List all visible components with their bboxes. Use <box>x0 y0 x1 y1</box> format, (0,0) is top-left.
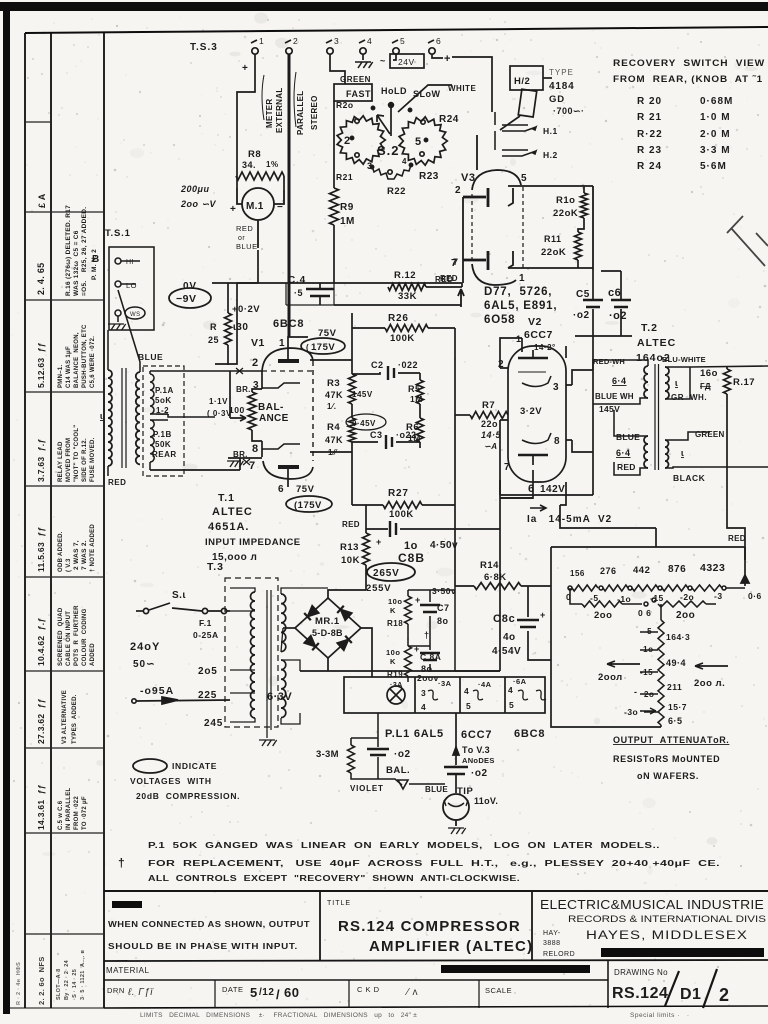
svg-text:( V.3: ( V.3 <box>66 558 72 572</box>
svg-text:0·6: 0·6 <box>748 591 762 601</box>
svg-text:2о: 2о <box>644 690 654 699</box>
svg-text:5-D-8B: 5-D-8B <box>312 628 343 638</box>
svg-text:1⁄⁄: 1⁄⁄ <box>328 448 338 457</box>
svg-text:D77, 5726,: D77, 5726, <box>484 286 552 298</box>
svg-text:PARALLEL: PARALLEL <box>296 91 305 135</box>
svg-text:R: R <box>210 322 217 332</box>
svg-text:R7: R7 <box>482 400 495 411</box>
wires V2 <box>455 283 593 505</box>
svg-text:"NOT" TO "COOL": "NOT" TO "COOL" <box>74 425 80 482</box>
svg-text:1-2: 1-2 <box>156 406 169 415</box>
svg-text:5: 5 <box>400 36 405 46</box>
capacitor C3 <box>352 441 420 443</box>
svg-text:3: 3 <box>367 161 373 171</box>
svg-text:−9V: −9V <box>176 293 196 305</box>
svg-text:442: 442 <box>633 565 650 576</box>
svg-text:4323: 4323 <box>700 562 725 574</box>
svg-text:100K: 100K <box>390 333 415 344</box>
svg-text:276: 276 <box>600 566 617 576</box>
svg-text:8о: 8о <box>437 616 449 626</box>
svg-text:P.1 5OK GANGED WAS LINEAR: P.1 5OK GANGED WAS LINEAR ON EARLY MODEL… <box>148 840 660 850</box>
svg-text:0-25A: 0-25A <box>193 630 219 640</box>
svg-text:TYPE: TYPE <box>549 68 574 77</box>
svg-text:R18: R18 <box>387 619 403 628</box>
svg-text:1⁄.: 1⁄. <box>327 402 337 411</box>
svg-text:BLU-WHITE: BLU-WHITE <box>662 355 706 364</box>
24V supply box <box>390 54 492 112</box>
svg-text:ɩ: ɩ <box>675 378 678 388</box>
svg-text:(: ( <box>306 343 309 352</box>
svg-text:REAR: REAR <box>152 450 177 459</box>
revision table <box>25 122 104 934</box>
heater fuse row <box>300 671 546 713</box>
svg-text:145V: 145V <box>599 404 620 414</box>
resistor R11 <box>575 232 582 260</box>
svg-text:C5: C5 <box>576 289 590 300</box>
svg-text:4·50v: 4·50v <box>430 540 458 551</box>
svg-text:~: ~ <box>380 56 386 66</box>
svg-text:V3 ALTERNATIVE: V3 ALTERNATIVE <box>62 690 68 744</box>
tube V1 <box>150 54 313 487</box>
svg-text:14·2°: 14·2° <box>534 343 556 352</box>
svg-text:4184: 4184 <box>549 81 574 92</box>
svg-text:3·2V: 3·2V <box>520 406 542 417</box>
svg-text:2оо: 2оо <box>676 610 695 621</box>
svg-text:P.L1 6AL5: P.L1 6AL5 <box>385 728 444 740</box>
ground term4 <box>362 54 364 60</box>
svg-text:TYPES ADDED.: TYPES ADDED. <box>72 694 78 744</box>
ground T3 <box>259 740 277 746</box>
svg-text:VIOLЕT: VIOLЕT <box>350 784 384 793</box>
svg-text:RЕD: RЕD <box>342 520 360 529</box>
svg-text:2оо: 2оо <box>594 610 612 621</box>
svg-text:6·3V: 6·3V <box>267 691 292 703</box>
resistor R4 <box>349 418 356 442</box>
svg-text:3-3M: 3-3M <box>316 749 339 760</box>
svg-text:or: or <box>238 235 245 242</box>
svg-text:R11: R11 <box>544 234 562 244</box>
svg-text:4: 4 <box>367 36 372 46</box>
svg-text:3·3 M: 3·3 M <box>700 145 731 156</box>
svg-text:-1о: -1о <box>640 645 654 654</box>
svg-text:+: + <box>376 537 382 547</box>
svg-text:6·8K: 6·8K <box>484 572 507 583</box>
svg-text:·о2: ·о2 <box>394 749 411 760</box>
svg-text:RED: RED <box>435 275 453 284</box>
svg-text:DATE: DATE <box>222 985 243 994</box>
svg-text:100K: 100K <box>389 509 414 520</box>
svg-text:В: В <box>92 254 100 265</box>
svg-text:MOVED FROM: MOVED FROM <box>66 438 72 482</box>
svg-text:+: + <box>242 63 248 74</box>
svg-text:ALL CONTROLS EXCEPT "RECOVE: ALL CONTROLS EXCEPT "RECOVERY" SHOWN ANT… <box>148 873 520 883</box>
svg-text:2оол: 2оол <box>598 672 623 683</box>
svg-text:WH.: WH. <box>690 393 707 402</box>
svg-text:R.12: R.12 <box>394 270 416 281</box>
svg-text:6·5: 6·5 <box>668 716 683 726</box>
svg-text:R23: R23 <box>419 171 439 182</box>
svg-text:C5,6 WERE ·072.: C5,6 WERE ·072. <box>90 336 96 388</box>
svg-text:BLUE: BLUE <box>138 352 163 362</box>
svg-text:1·0 M: 1·0 M <box>700 112 731 123</box>
svg-text:BALANCE NEON,: BALANCE NEON, <box>74 332 80 388</box>
svg-text:RELAY LEAD: RELAY LEAD <box>58 441 64 482</box>
svg-text:R1о: R1о <box>556 195 575 206</box>
ground jack <box>448 828 466 834</box>
svg-text:4: 4 <box>421 702 426 712</box>
capacitor C7 <box>420 590 440 646</box>
svg-text:R27: R27 <box>388 488 409 499</box>
svg-text:2оо ∽V: 2оо ∽V <box>180 199 217 209</box>
capacitor C8A <box>420 646 440 671</box>
svg-text:145V: 145V <box>352 390 373 399</box>
svg-text:2: 2 <box>455 185 461 196</box>
svg-text:K: K <box>390 657 396 666</box>
svg-text:H.2: H.2 <box>543 150 558 160</box>
svg-text:175V: 175V <box>311 342 335 353</box>
svg-text:47K: 47K <box>325 435 343 445</box>
svg-text:† NOTE ADDED: † NOTE ADDED <box>90 524 96 572</box>
resistor R9 <box>330 101 339 283</box>
corner pencil mark <box>727 216 768 266</box>
svg-text:PUSH-BUTTON, ETC: PUSH-BUTTON, ETC <box>82 324 88 388</box>
svg-text:INDICATE: INDICATE <box>172 761 217 771</box>
svg-text:HоLD: HоLD <box>381 86 407 96</box>
svg-text:-5: -5 <box>590 593 599 603</box>
svg-text:T.S.3: T.S.3 <box>190 42 218 53</box>
svg-text:RELORD: RELORD <box>543 951 575 958</box>
svg-text:22оK: 22оK <box>541 247 566 258</box>
svg-text:LIMITS DECIMAL DIMENSIONS: LIMITS DECIMAL DIMENSIONS ±· FRACTIONAL … <box>140 1012 417 1019</box>
svg-text:R6: R6 <box>406 422 419 433</box>
svg-text:50∽: 50∽ <box>133 659 156 670</box>
svg-text:10о: 10о <box>386 648 400 657</box>
svg-text:R 21: R 21 <box>637 112 662 123</box>
lamp H/2 <box>500 66 552 130</box>
svg-text:R4: R4 <box>327 422 340 433</box>
svg-text:+: + <box>230 204 236 215</box>
svg-text:H/2: H/2 <box>514 76 530 87</box>
svg-text:ГД: ГД <box>700 382 711 391</box>
svg-text:ANCE: ANCE <box>259 413 289 424</box>
svg-text:3888: 3888 <box>543 940 561 947</box>
svg-text:/: / <box>276 987 280 1002</box>
svg-text:/12: /12 <box>259 987 274 998</box>
svg-text:10.4.62 ƒ.ƒ: 10.4.62 ƒ.ƒ <box>36 618 46 667</box>
svg-text:27.3.62 ƒƒ: 27.3.62 ƒƒ <box>36 698 46 744</box>
svg-text:RS.124 COMPRESSOR: RS.124 COMPRESSOR <box>338 918 521 935</box>
svg-text:R9: R9 <box>340 202 354 213</box>
svg-text:·022: ·022 <box>398 360 418 370</box>
svg-text:6ВC8: 6ВC8 <box>514 728 545 740</box>
svg-text:C 8А: C 8А <box>420 652 441 662</box>
svg-text:4651A.: 4651A. <box>208 521 249 533</box>
svg-text:ALTЕC: ALTЕC <box>637 337 676 349</box>
svg-text:GRЕЕN: GRЕЕN <box>695 430 724 439</box>
svg-text:COLOUR CODING: COLOUR CODING <box>82 608 88 666</box>
ground grid rail <box>227 461 243 467</box>
svg-text:WHEN CONNECTED AS SHOWN, OUTPU: WHEN CONNECTED AS SHOWN, OUTPUT <box>108 920 310 929</box>
svg-text:T.S.1: T.S.1 <box>105 228 131 239</box>
svg-text:6CC7: 6CC7 <box>461 729 492 741</box>
svg-text:GD: GD <box>549 94 565 105</box>
svg-text:14·5: 14·5 <box>481 430 502 440</box>
svg-text:FAST: FAST <box>346 89 371 99</box>
svg-text:6AL5, E891,: 6AL5, E891, <box>484 300 557 312</box>
svg-text:2: 2 <box>293 36 298 46</box>
svg-text:22оK: 22оK <box>553 208 578 219</box>
svg-text:LO: LO <box>126 281 137 290</box>
svg-text:+0·2V: +0·2V <box>232 304 260 315</box>
svg-text:·5: ·5 <box>294 288 303 298</box>
svg-text:TO ·072 μF: TO ·072 μF <box>82 796 88 830</box>
svg-text:2. 2. 6о NFS: 2. 2. 6о NFS <box>37 957 46 1006</box>
cap .02 to jack <box>444 713 468 793</box>
svg-text:ɩ: ɩ <box>100 411 103 421</box>
svg-text:MATERIAL: MATERIAL <box>106 966 149 975</box>
svg-text:0·68M: 0·68M <box>700 96 733 107</box>
H1 contacts <box>495 112 536 156</box>
svg-text:6O58: 6O58 <box>484 314 515 326</box>
svg-text:HAY-: HAY- <box>543 930 561 937</box>
legend indicate <box>133 759 167 773</box>
svg-text:-5: -5 <box>644 627 652 636</box>
svg-text:AMPLIFIER (ALTEC): AMPLIFIER (ALTEC) <box>369 938 533 955</box>
wire term3 <box>330 54 345 84</box>
svg-text:211: 211 <box>667 682 682 692</box>
svg-text:FUSE MOVED.: FUSE MOVED. <box>90 437 96 482</box>
svg-text:3·50v: 3·50v <box>432 586 456 596</box>
svg-text:c6: c6 <box>608 287 621 299</box>
svg-text:PMN–1.: PMN–1. <box>58 364 64 388</box>
svg-text:RЕSISTоRS MоUNTЕD: RЕSISTоRS MоUNTЕD <box>613 754 720 764</box>
svg-text:T.2: T.2 <box>641 322 658 334</box>
svg-text:ɩ: ɩ <box>681 448 684 458</box>
svg-text:7: 7 <box>249 460 256 472</box>
rotary switch S2 <box>334 84 452 179</box>
svg-text:АNоDЕS: АNоDЕS <box>462 756 495 765</box>
-9V oval <box>169 288 211 308</box>
svg-text:49·4: 49·4 <box>666 658 686 668</box>
svg-text:ВLUЕ WH: ВLUЕ WH <box>595 392 634 401</box>
bus wires bottom <box>455 480 551 671</box>
svg-text:⁄ ʌ: ⁄ ʌ <box>404 987 418 998</box>
svg-text:50K: 50K <box>155 440 171 449</box>
svg-text:†: † <box>424 630 430 640</box>
wire meter to T1 <box>215 250 258 364</box>
svg-text:5оK: 5оK <box>155 396 172 405</box>
svg-text:RED: RED <box>236 224 253 233</box>
svg-text:SHOULD BE IN PHASE WITH INPUT.: SHOULD BE IN PHASE WITH INPUT. <box>108 942 298 951</box>
svg-text:ВAL.: ВAL. <box>386 765 410 776</box>
svg-text:R24: R24 <box>439 114 459 125</box>
svg-text:·700∽·: ·700∽· <box>553 106 585 116</box>
svg-text:−: − <box>277 202 283 213</box>
svg-text:F.1: F.1 <box>199 618 212 628</box>
svg-text:SLоW: SLоW <box>413 89 441 99</box>
svg-text:T.1: T.1 <box>218 492 235 504</box>
svg-text:4: 4 <box>402 157 407 166</box>
svg-text:200μи: 200μи <box>180 184 209 194</box>
svg-text:C2: C2 <box>371 360 384 370</box>
svg-text:£ A: £ A <box>37 193 47 208</box>
svg-text:RЕD-WH: RЕD-WH <box>593 357 625 366</box>
svg-text:V2: V2 <box>528 316 542 328</box>
svg-text:8: 8 <box>554 436 560 447</box>
svg-text:METER: METER <box>265 99 274 129</box>
svg-text:DRN: DRN <box>107 986 125 995</box>
svg-text:0V: 0V <box>183 281 197 292</box>
svg-text:5: 5 <box>521 173 527 184</box>
svg-text:5: 5 <box>509 700 514 710</box>
svg-text:·о2: ·о2 <box>573 310 590 321</box>
svg-text:7: 7 <box>504 462 510 473</box>
svg-text:GR: GR <box>671 393 684 402</box>
svg-text:·3A: ·3A <box>390 682 403 689</box>
svg-text:0·45V: 0·45V <box>352 419 376 428</box>
svg-text:WHITE: WHITE <box>448 84 476 93</box>
svg-text:3· 5 · 1121 A..,. в: 3· 5 · 1121 A..,. в <box>80 950 86 1000</box>
svg-text:C K D: C K D <box>357 985 380 994</box>
svg-text:FROM ·022: FROM ·022 <box>74 796 80 830</box>
svg-text:BR.: BR. <box>236 385 251 394</box>
svg-text:FOR REPLACEMENT, USE 40μF: FOR REPLACEMENT, USE 40μF ACROSS FULL H.… <box>148 858 720 868</box>
svg-text:RED: RED <box>108 478 126 487</box>
svg-text:7: 7 <box>453 257 459 267</box>
svg-text:1: 1 <box>516 334 522 344</box>
svg-text:C.4: C.4 <box>288 275 306 286</box>
svg-text:BR.: BR. <box>233 450 248 459</box>
svg-text:1: 1 <box>259 36 264 46</box>
svg-text:R21: R21 <box>336 172 353 182</box>
svg-text:876: 876 <box>668 564 686 575</box>
svg-text:R.16 (276ω) DELETED. R17: R.16 (276ω) DELETED. R17 <box>65 205 72 296</box>
svg-text:·6A: ·6A <box>513 677 527 686</box>
svg-text:245: 245 <box>204 718 223 729</box>
svg-text:P.1В: P.1В <box>153 430 172 439</box>
resistor R19 <box>405 646 412 676</box>
svg-text:MR.1: MR.1 <box>315 616 340 627</box>
svg-text:C8с: C8с <box>493 613 516 625</box>
svg-text:2. 4. 65: 2. 4. 65 <box>36 263 46 295</box>
svg-text:INPUT IMPЕDАNCЕ: INPUT IMPЕDАNCЕ <box>205 537 301 548</box>
svg-text:D1: D1 <box>680 986 701 1003</box>
svg-text:5.12.63 ƒƒ: 5.12.63 ƒƒ <box>36 342 46 388</box>
right wires <box>500 360 745 560</box>
svg-text:24V: 24V <box>398 57 415 67</box>
svg-text:ВLАCK: ВLАCK <box>673 473 706 483</box>
resistor R6 <box>417 418 424 442</box>
svg-text:11оV.: 11оV. <box>474 796 498 806</box>
svg-text:1%: 1% <box>266 160 279 169</box>
svg-text:2 WAS 7,: 2 WAS 7, <box>73 540 80 570</box>
svg-text:16о: 16о <box>700 368 718 379</box>
svg-text:RECOVERY SWITCH VIEW: RECOVERY SWITCH VIEW <box>613 58 765 69</box>
svg-text:10K: 10K <box>341 555 360 566</box>
svg-text:R 20: R 20 <box>637 96 662 107</box>
svg-text:RЕD: RЕD <box>617 462 636 472</box>
200 ohm arrows <box>607 661 728 669</box>
svg-text:255V: 255V <box>366 583 391 594</box>
svg-text:2о5: 2о5 <box>198 666 218 677</box>
meter M1 <box>237 188 284 248</box>
svg-text:+: + <box>540 610 546 620</box>
svg-text:6: 6 <box>436 36 441 46</box>
svg-text:†: † <box>118 856 125 870</box>
svg-text:·4A: ·4A <box>478 680 492 689</box>
svg-text:1: 1 <box>519 273 525 284</box>
svg-text:4: 4 <box>464 686 469 696</box>
capacitor C6 <box>601 271 621 336</box>
svg-text:HAYES, MIDDLESEX: HAYES, MIDDLESEX <box>586 930 748 942</box>
svg-text:ℓ. Гƒї: ℓ. Гƒї <box>127 987 154 998</box>
svg-text:2: 2 <box>252 357 259 369</box>
svg-text:DRAWING No: DRAWING No <box>614 968 668 977</box>
0V rail <box>212 282 462 284</box>
svg-text:2·0 M: 2·0 M <box>700 129 731 140</box>
svg-text:M.1: M.1 <box>246 201 264 212</box>
svg-text:R 24: R 24 <box>637 161 662 172</box>
svg-text:BLUE: BLUE <box>236 242 258 251</box>
svg-text:6CC7: 6CC7 <box>524 329 553 341</box>
svg-text:24оY: 24оY <box>130 641 160 653</box>
svg-text:60: 60 <box>284 985 299 1000</box>
svg-text:ELECTRIC&MUSICAL INDUSTRIE: ELECTRIC&MUSICAL INDUSTRIE <box>540 898 764 912</box>
svg-text:BAL-: BAL- <box>258 402 284 413</box>
svg-text:·о2: ·о2 <box>609 310 627 322</box>
svg-text:R26: R26 <box>388 313 409 324</box>
svg-text:SCALE: SCALE <box>485 986 512 995</box>
svg-text:8: 8 <box>252 443 259 455</box>
svg-text:1M: 1M <box>340 216 355 227</box>
svg-text:·3A: ·3A <box>438 679 452 688</box>
svg-text:By · 22 · 2· 24: By · 22 · 2· 24 <box>64 959 70 1000</box>
svg-text:265V: 265V <box>373 568 400 579</box>
svg-text:1·1V: 1·1V <box>209 397 228 406</box>
svg-text:H.1: H.1 <box>543 126 558 136</box>
svg-text:R·22: R·22 <box>637 129 663 140</box>
attenuator second row <box>570 588 716 607</box>
svg-text:5: 5 <box>250 985 258 1000</box>
svg-text:10о: 10о <box>388 597 402 606</box>
svg-text:75V: 75V <box>296 484 315 495</box>
svg-text:EXTERNAL: EXTERNAL <box>275 87 284 133</box>
svg-text:STEREO: STEREO <box>310 95 319 130</box>
svg-text:R2о: R2о <box>336 100 354 110</box>
svg-text:=O5. R25, 26, 27 ADDED.: =O5. R25, 26, 27 ADDED. <box>81 207 88 296</box>
svg-text:K: K <box>390 606 396 615</box>
svg-text:GREEN: GREEN <box>340 75 371 84</box>
resistor R5 <box>417 373 424 448</box>
svg-text:SIDE OF R.12.: SIDE OF R.12. <box>82 438 88 482</box>
svg-text:FROM REAR, (KNOB AT ˜1: FROM REAR, (KNOB AT ˜1 <box>613 74 763 85</box>
svg-text:156: 156 <box>570 569 585 578</box>
svg-text:164·3: 164·3 <box>666 632 690 642</box>
tube V2 <box>500 342 572 482</box>
svg-text:S.2: S.2 <box>377 143 400 158</box>
svg-text:R5: R5 <box>408 384 421 394</box>
svg-text:R22: R22 <box>387 186 406 197</box>
svg-text:POTS R FURTHER: POTS R FURTHER <box>74 605 80 666</box>
svg-text:·о2: ·о2 <box>471 768 488 779</box>
svg-text:RS.124: RS.124 <box>612 985 668 1002</box>
svg-text:ADDED: ADDED <box>90 643 96 666</box>
svg-text:R8: R8 <box>248 149 261 160</box>
svg-text:2: 2 <box>719 985 730 1005</box>
svg-text:R3: R3 <box>327 378 340 389</box>
ground TS1 <box>108 324 126 330</box>
svg-text:25: 25 <box>208 335 219 345</box>
